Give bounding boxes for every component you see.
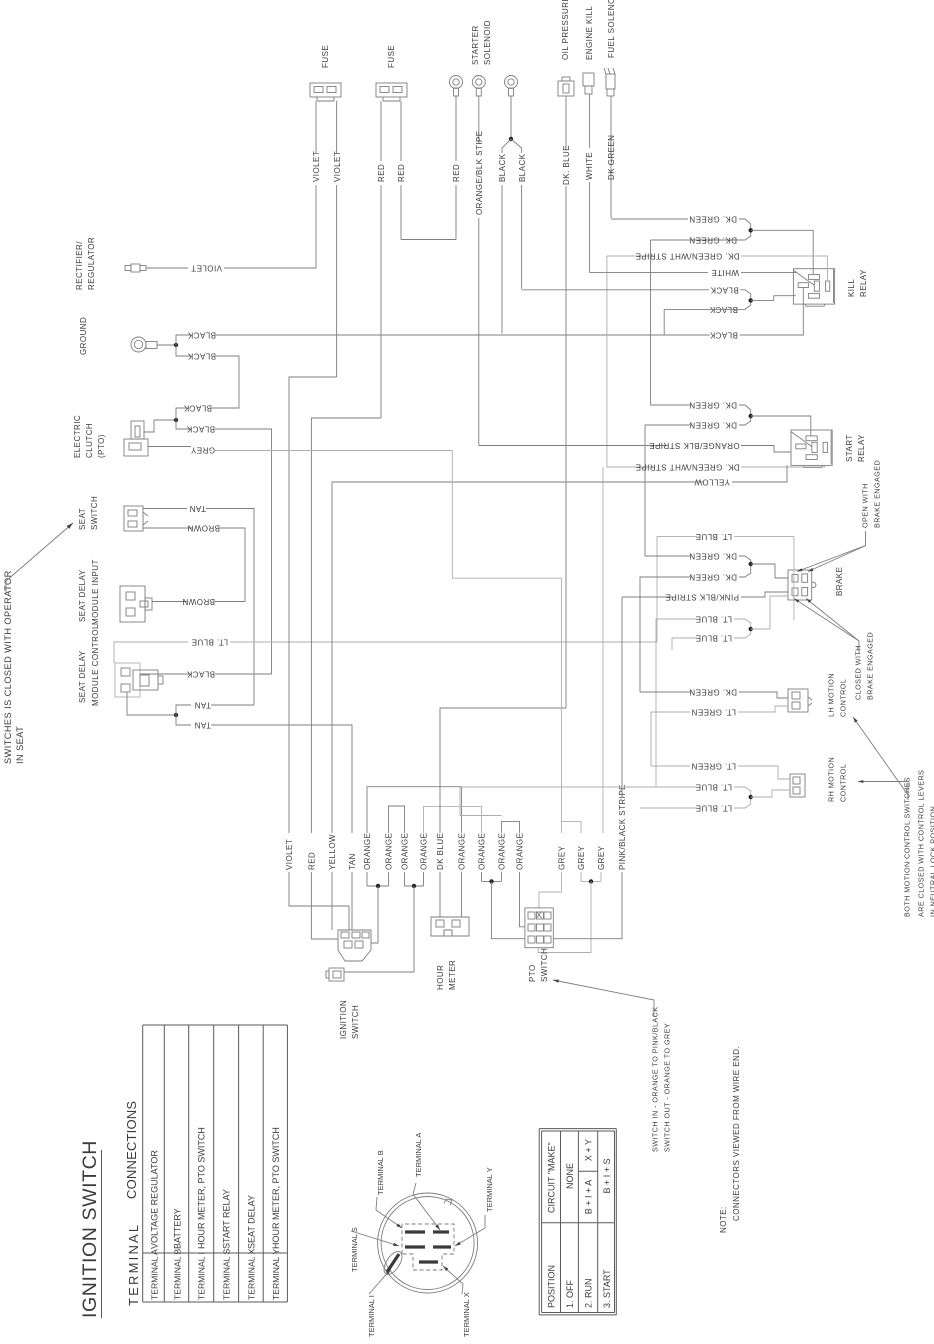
svg-text:DK. GREEN: DK. GREEN [689, 236, 737, 245]
svg-text:(PTO): (PTO) [97, 434, 106, 458]
svg-text:BLACK: BLACK [709, 331, 738, 340]
svg-text:STARTER: STARTER [471, 25, 480, 65]
svg-text:START: START [845, 434, 854, 462]
svg-text:MODULE CONTROL: MODULE CONTROL [91, 624, 100, 706]
svg-text:B + I + S: B + I + S [602, 1158, 612, 1193]
svg-text:IGNITION SWITCH: IGNITION SWITCH [79, 1140, 101, 1318]
svg-text:SWITCH: SWITCH [90, 496, 99, 530]
svg-text:DK. GREEN/WHT STRIPE: DK. GREEN/WHT STRIPE [635, 252, 739, 261]
svg-text:LT. GREEN: LT. GREEN [691, 708, 736, 717]
svg-text:TAN: TAN [348, 853, 357, 870]
svg-text:LT. BLUE: LT. BLUE [695, 804, 732, 813]
svg-text:DK. GREEN/WHT STRIPE: DK. GREEN/WHT STRIPE [635, 463, 739, 472]
svg-text:NONE: NONE [565, 1163, 575, 1189]
svg-text:DK. GREEN: DK. GREEN [689, 401, 737, 410]
svg-text:RED: RED [452, 164, 461, 182]
svg-text:TAN: TAN [189, 504, 206, 513]
svg-text:LH MOTION: LH MOTION [826, 673, 835, 717]
svg-text:ENGINE KILL: ENGINE KILL [585, 6, 594, 60]
svg-text:OIL PRESSURE: OIL PRESSURE [561, 0, 570, 60]
svg-text:TERMINAL A: TERMINAL A [150, 1249, 160, 1300]
svg-text:SOLENOID: SOLENOID [483, 20, 492, 65]
svg-text:IN SEAT: IN SEAT [15, 726, 25, 764]
svg-text:CIRCUIT "MAKE": CIRCUIT "MAKE" [547, 1142, 557, 1213]
svg-text:CLOSED WITH: CLOSED WITH [853, 645, 862, 700]
svg-text:X + Y: X + Y [584, 1139, 594, 1161]
svg-text:3. START: 3. START [602, 1269, 612, 1308]
svg-text:BATTERY: BATTERY [173, 1208, 183, 1249]
svg-text:BROWN: BROWN [187, 524, 220, 533]
svg-text:BLACK: BLACK [187, 331, 216, 340]
svg-text:TERMINAL B: TERMINAL B [173, 1248, 183, 1300]
svg-text:TERMINAL A: TERMINAL A [414, 1133, 423, 1177]
svg-text:ORANGE: ORANGE [515, 833, 524, 870]
svg-text:POSITION: POSITION [547, 1265, 557, 1308]
svg-text:SWITCHES IS CLOSED WITH OPERAT: SWITCHES IS CLOSED WITH OPERATOR [3, 570, 13, 764]
svg-text:1. OFF: 1. OFF [565, 1279, 575, 1308]
svg-text:GREY: GREY [597, 845, 606, 870]
svg-text:BLACK: BLACK [498, 153, 507, 182]
svg-text:CONNECTORS VIEWED FROM WIRE EN: CONNECTORS VIEWED FROM WIRE END. [732, 1046, 741, 1221]
svg-text:DK. GREEN: DK. GREEN [689, 215, 737, 224]
svg-text:NOTE:: NOTE: [719, 1206, 728, 1233]
svg-text:OPEN WITH: OPEN WITH [860, 483, 869, 528]
svg-text:START RELAY: START RELAY [222, 1189, 232, 1249]
svg-text:TERMINAL B: TERMINAL B [376, 1150, 385, 1195]
svg-text:TERMINAL I: TERMINAL I [197, 1252, 207, 1300]
svg-text:GREY: GREY [577, 845, 586, 870]
svg-text:TAN: TAN [194, 721, 211, 730]
svg-text:GREY: GREY [557, 845, 566, 870]
svg-text:ELECTRIC: ELECTRIC [73, 415, 82, 458]
svg-text:SWITCH IN - ORANGE TO PINK/BLA: SWITCH IN - ORANGE TO PINK/BLACK [650, 1006, 659, 1152]
svg-text:BLACK: BLACK [186, 425, 215, 434]
svg-text:RELAY: RELAY [857, 434, 866, 462]
svg-text:SWITCH: SWITCH [351, 1005, 360, 1039]
svg-text:CLUTCH: CLUTCH [85, 423, 94, 458]
svg-text:PINK/BLK STRIPE: PINK/BLK STRIPE [665, 593, 739, 602]
svg-text:TERMINAL X: TERMINAL X [246, 1248, 256, 1300]
svg-text:FUEL SOLENOID: FUEL SOLENOID [607, 0, 616, 58]
svg-text:ORANGE/BLK STRIPE: ORANGE/BLK STRIPE [649, 441, 740, 450]
svg-text:GROUND: GROUND [79, 317, 88, 355]
svg-text:WHITE: WHITE [585, 152, 594, 180]
svg-text:GREY: GREY [190, 446, 215, 455]
svg-text:TERMINAL S: TERMINAL S [222, 1248, 232, 1300]
svg-text:TERMINAL Y: TERMINAL Y [271, 1249, 281, 1300]
svg-text:BLACK: BLACK [186, 670, 215, 679]
svg-text:METER: METER [448, 960, 457, 990]
svg-text:LT. BLUE: LT. BLUE [191, 638, 228, 647]
svg-text:ORANGE: ORANGE [384, 833, 393, 870]
svg-text:ARE CLOSED WITH CONTROL LEVERS: ARE CLOSED WITH CONTROL LEVERS [916, 770, 925, 917]
svg-text:RELAY: RELAY [859, 269, 868, 297]
svg-text:BLACK: BLACK [710, 285, 739, 294]
svg-text:SEAT DELAY: SEAT DELAY [246, 1195, 256, 1249]
svg-text:HOUR: HOUR [436, 965, 445, 990]
svg-text:IGNITION: IGNITION [339, 1000, 348, 1039]
svg-text:LT. BLUE: LT. BLUE [695, 634, 732, 643]
svg-text:ORANGE/BLK STIPE: ORANGE/BLK STIPE [475, 130, 484, 215]
svg-text:HOUR METER, PTO SWITCH: HOUR METER, PTO SWITCH [271, 1127, 281, 1249]
svg-text:MODULE INPUT: MODULE INPUT [91, 559, 100, 625]
svg-text:CONTROL: CONTROL [838, 679, 847, 717]
svg-text:BROWN: BROWN [182, 597, 215, 606]
svg-text:SEAT DELAY: SEAT DELAY [78, 569, 87, 622]
svg-text:SEAT: SEAT [78, 508, 87, 530]
svg-text:DK. GREEN: DK. GREEN [689, 552, 737, 561]
svg-text:VIOLET: VIOLET [191, 264, 222, 273]
svg-text:CONTROL: CONTROL [838, 764, 847, 802]
svg-text:ORANGE: ORANGE [497, 833, 506, 870]
svg-text:DK BLUE: DK BLUE [436, 833, 445, 870]
svg-text:HOUR METER, PTO SWITCH: HOUR METER, PTO SWITCH [197, 1127, 207, 1249]
svg-text:RED: RED [397, 164, 406, 182]
svg-text:YELLOW: YELLOW [328, 834, 337, 870]
svg-text:ORANGE: ORANGE [400, 833, 409, 870]
svg-text:TAN: TAN [194, 701, 211, 710]
svg-text:RED: RED [307, 852, 316, 870]
svg-text:VIOLET: VIOLET [333, 151, 342, 182]
svg-text:TERMINAL I: TERMINAL I [367, 1295, 376, 1337]
svg-text:RED: RED [377, 164, 386, 182]
svg-text:TERMINAL Y: TERMINAL Y [485, 1167, 494, 1212]
svg-text:LT. GREEN: LT. GREEN [691, 762, 736, 771]
svg-text:DK. GREEN: DK. GREEN [689, 688, 737, 697]
svg-text:DK. GREEN: DK. GREEN [689, 421, 737, 430]
svg-text:FUSE: FUSE [321, 45, 330, 68]
svg-text:SEAT DELAY: SEAT DELAY [78, 650, 87, 703]
svg-text:BRAKE: BRAKE [835, 567, 844, 596]
svg-text:RH MOTION: RH MOTION [826, 757, 835, 802]
svg-text:ORANGE: ORANGE [419, 833, 428, 870]
svg-text:PTO: PTO [528, 964, 537, 982]
svg-text:VIOLET: VIOLET [312, 151, 321, 182]
svg-text:DK. BLUE: DK. BLUE [562, 145, 571, 185]
svg-text:REGULATOR: REGULATOR [87, 237, 96, 290]
svg-text:SWITCH: SWITCH [540, 948, 549, 982]
svg-text:SWITCH OUT - ORANGE TO GREY: SWITCH OUT - ORANGE TO GREY [662, 1023, 671, 1152]
svg-text:BLACK: BLACK [187, 352, 216, 361]
svg-text:B + I + A: B + I + A [584, 1180, 594, 1215]
svg-text:LT. BLUE: LT. BLUE [695, 532, 732, 541]
svg-text:ORANGE: ORANGE [363, 833, 372, 870]
svg-text:DK GREEN: DK GREEN [607, 135, 616, 180]
svg-text:BRAKE ENGAGED: BRAKE ENGAGED [872, 460, 881, 528]
svg-text:WHITE: WHITE [711, 268, 739, 277]
svg-text:BLACK: BLACK [518, 153, 527, 182]
svg-text:CONNECTIONS: CONNECTIONS [124, 1101, 139, 1199]
svg-text:TERMINAL X: TERMINAL X [462, 1292, 471, 1337]
svg-text:TERMINAL: TERMINAL [126, 1223, 141, 1306]
svg-text:TERMINAL S: TERMINAL S [350, 1227, 359, 1272]
svg-text:VOLTAGE REGULATOR: VOLTAGE REGULATOR [150, 1150, 160, 1249]
svg-text:BRAKE ENGAGED: BRAKE ENGAGED [865, 632, 874, 700]
svg-text:2. RUN: 2. RUN [584, 1278, 594, 1308]
svg-text:RECTIFIER/: RECTIFIER/ [75, 241, 84, 290]
svg-text:ORANGE: ORANGE [477, 833, 486, 870]
svg-text:VIOLET: VIOLET [285, 839, 294, 870]
svg-text:FUSE: FUSE [387, 45, 396, 68]
svg-text:BOTH MOTION CONTROL SWITCHES: BOTH MOTION CONTROL SWITCHES [902, 777, 911, 917]
svg-text:ORANGE: ORANGE [457, 833, 466, 870]
svg-text:DK. GREEN: DK. GREEN [689, 573, 737, 582]
svg-text:LT. BLUE: LT. BLUE [695, 615, 732, 624]
svg-text:LT. BLUE: LT. BLUE [695, 783, 732, 792]
svg-text:KILL: KILL [847, 279, 856, 297]
svg-text:IN NEUTRAL LOCK POSITION: IN NEUTRAL LOCK POSITION [928, 806, 934, 917]
